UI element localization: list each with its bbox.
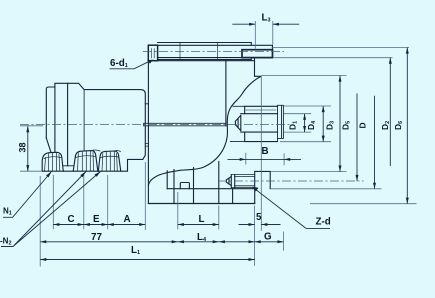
screw S1 thread line [246,109,276,111]
leader Z-d [253,187,331,228]
housing rib x193.5 [193,168,195,204]
gearbox housing left face [147,61,149,204]
terminal nut N2b [98,151,121,171]
svg-text:38: 38 [18,142,28,152]
svg-text:E: E [93,214,100,225]
dim D2 line [389,58,391,166]
dim B ext lines [246,153,284,165]
housing top edge [148,60,254,62]
dim 38 line [27,126,29,171]
Z-d arrow [253,187,259,191]
D4 arrows [322,106,325,112]
dim D4 exts [280,106,331,142]
D2 arrow [389,58,392,64]
output screw S2 cone [226,175,234,188]
dim row1 ext line E [83,175,85,229]
terminal nut N1 [42,152,63,171]
dim ext step x260.8 [260,77,262,231]
dim D6 exts [272,48,417,204]
worm section block [242,50,273,58]
housing rib x218.8 [218,162,220,204]
5 arrows [249,223,255,226]
E arrows [84,223,90,226]
cover screw S1 cone tip [235,115,240,130]
housing base bump [180,183,189,189]
D arrow [373,183,376,189]
motor cap-to-nut curve [46,138,51,152]
svg-text:A: A [124,214,131,225]
svg-text:L: L [199,214,205,225]
svg-text:B: B [262,146,269,157]
L3 arrows [249,23,255,26]
housing top-right step [255,58,261,77]
dim row1 ext line A2 interface [144,162,146,230]
cover screw S1 shank [241,114,278,132]
svg-text:D: D [358,122,368,128]
motor mid line x67.6 [67,83,69,166]
output boss [255,171,271,203]
housing rib x232.6 [232,189,234,204]
terminal nut N2a [73,151,98,172]
dim row2 ext right [283,232,285,251]
housing base top edge [167,188,255,190]
dim row1 ext line C [52,175,54,229]
dim row1 line CEA [53,224,145,226]
dim row1 ext line A1 [107,175,109,229]
shaft section ticks [180,43,218,60]
housing rib x174 [173,170,175,204]
leader N2 [1,172,101,247]
D1 arrows [303,114,306,120]
motor M1 outline [42,83,145,171]
dim D1 line [304,114,306,132]
dim 38 ext lines [20,126,43,171]
dim D1 exts [284,114,312,132]
dim D line [374,96,376,189]
dim L3 ext lines [255,21,272,49]
output screw S2 shank [231,175,254,188]
A arrows [108,223,114,226]
D3 arrows [339,76,342,82]
dim B line [228,158,302,160]
G arrows [249,240,255,243]
centerline shaft axis [143,51,284,53]
housing bell curve [148,77,260,187]
motor alignment pin top [145,103,148,105]
D5 arrow [356,175,359,181]
N1 arrow [46,172,51,178]
dim L1 ext line left [39,176,41,267]
svg-text:77: 77 [91,232,102,243]
housing pocket vertical [225,61,227,126]
dim D ext [271,188,382,190]
svg-text:Z-d: Z-d [316,217,331,228]
D6 arrows [406,48,409,54]
dim L1 line [40,259,254,261]
dim row1 ext lines L [178,192,219,229]
housing base front vertical [166,171,168,189]
dim D3 exts [261,76,347,172]
38 arrows [26,126,29,132]
dim L3 lines [232,23,299,25]
svg-text:C: C [68,214,75,225]
svg-text:G: G [264,232,272,243]
motor chamfer base line x84.1 [83,90,85,151]
dim row2 line 77 L4 G [40,241,283,243]
arrowheads [26,23,409,261]
L arrows [178,223,184,226]
housing base bottom [148,203,254,205]
shaft body [158,45,273,57]
dim D6 line [406,48,408,204]
L1 arrows [40,258,46,261]
dim D4 line [322,106,324,142]
cap block hole lines [151,49,154,59]
L4 arrows [172,240,178,243]
B arrows [240,158,246,161]
C arrows [53,223,59,226]
centerline main axis [20,124,292,126]
nut top wavy joint [92,150,121,152]
dim row1 line L [178,224,219,226]
dim D5 line [356,94,358,182]
cover screw S1 sleeve [245,106,278,141]
housing pocket slot lines [144,123,226,126]
centerline output axis [218,180,364,182]
dim ext face x254.7 [254,206,256,266]
dim D2 ext [273,57,393,59]
shaft tube [158,43,252,60]
dim D3 line [339,76,341,172]
N2 arrows [80,172,86,178]
motor alignment pin bottom [145,144,148,147]
77 arrows [40,240,46,243]
motor step line x54.9 [54,87,56,152]
dim 6-d1 leader [110,60,152,69]
svg-text:5: 5 [256,212,262,223]
screw S1 seat lines [231,106,245,141]
worm shaft end cap block [148,45,157,61]
cover screw S1 head [278,105,284,141]
leader N1 [3,172,52,218]
motor mid bottom edge [64,165,74,167]
6-d1 arrow [147,60,153,64]
dim row1 line 5 [239,224,281,226]
